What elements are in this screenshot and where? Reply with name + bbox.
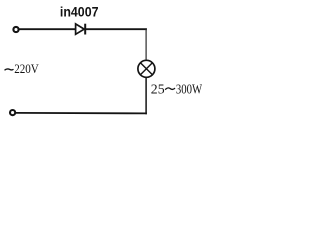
wire: lamp bottom to bottom-right corner: [145, 77, 147, 114]
svg-text:300W: 300W: [176, 83, 202, 98]
terminal (top input, line): [13, 27, 18, 32]
svg-text:in4007: in4007: [60, 4, 99, 20]
terminal (bottom input, neutral): [10, 110, 15, 115]
svg-text:25: 25: [151, 83, 165, 98]
wire: bottom horizontal to terminal: [15, 112, 147, 115]
value label 25~300W: [151, 83, 203, 98]
lamp EL (circle with X): [138, 60, 155, 77]
svg-text:220V: 220V: [14, 62, 39, 76]
wire: diode cathode to top-right corner: [86, 28, 147, 30]
wire: top terminal to diode anode: [19, 28, 76, 30]
source label ~220V: [5, 62, 39, 76]
diode D1 in4007: [76, 24, 86, 35]
wire: right vertical down to lamp: [145, 28, 147, 60]
